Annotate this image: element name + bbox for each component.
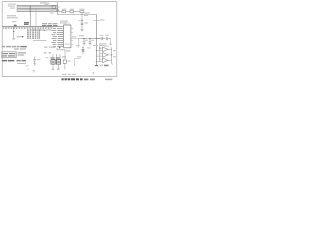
text above relay boxes bbox=[51, 57, 61, 58]
net text mid-left bbox=[17, 36, 23, 37]
capacitor C3 bbox=[81, 23, 84, 24]
resistor R1 bbox=[62, 11, 66, 13]
junction dots on bus bbox=[30, 6, 31, 12]
ic U4 box bbox=[56, 60, 60, 65]
wire IC to rail bbox=[75, 38, 79, 40]
ic U4 inner mark bbox=[57, 61, 59, 63]
junction decoupling rail 1 bbox=[83, 38, 84, 39]
connector J1 long pin row bbox=[2, 26, 57, 28]
wire U2B in1 bbox=[100, 53, 103, 55]
text near D1 bbox=[76, 45, 91, 57]
text right of op-amps bbox=[113, 50, 116, 57]
wire drop 2 bbox=[56, 54, 58, 60]
wire bus line D1 bbox=[17, 6, 58, 8]
junction R3 wire bbox=[81, 14, 82, 15]
wire IC bottom L bbox=[57, 48, 65, 60]
value text above R1 R2 bbox=[62, 9, 74, 10]
crystal Y1 bbox=[52, 6, 56, 9]
wire right vertical rail bbox=[95, 14, 97, 65]
wire below RN1 bbox=[33, 39, 47, 41]
ground marks bottom-left area bbox=[32, 70, 35, 73]
wire bus line D0 bbox=[17, 4, 58, 6]
wire U2A in1 bbox=[100, 47, 103, 49]
label text above bus right bbox=[40, 2, 50, 5]
capacitor C8 bbox=[107, 37, 111, 40]
IC U1 body bbox=[64, 25, 71, 48]
notes text top-left bbox=[8, 4, 16, 9]
IC U1 pin label rows bbox=[52, 26, 64, 47]
capacitor C5 bbox=[89, 39, 92, 46]
wire R3 down bbox=[81, 13, 83, 30]
wire vertical left column bbox=[13, 27, 15, 38]
wire stub left of node bbox=[79, 20, 83, 22]
wire below U4 bbox=[58, 64, 60, 69]
ground C9 bbox=[33, 64, 36, 66]
node IC bottom bbox=[59, 47, 61, 49]
wire U2B out bbox=[108, 54, 112, 56]
value text C3 bbox=[85, 22, 89, 23]
net label text dark above grid bbox=[24, 22, 29, 25]
notes line 4 bbox=[17, 63, 26, 64]
op-amp section header text bbox=[100, 43, 107, 46]
value text C9 bbox=[37, 57, 53, 60]
notes line 2 bbox=[14, 48, 26, 49]
op-amp rail 2 bbox=[99, 44, 101, 62]
node dot far-left bottom bbox=[28, 69, 29, 70]
wire drop 3 bbox=[59, 54, 61, 60]
wire C8 down bbox=[110, 39, 112, 44]
ground left column bbox=[12, 38, 15, 41]
op-amp U2C bbox=[103, 58, 108, 63]
ic U3 box bbox=[51, 60, 55, 65]
node RN1 wire bbox=[44, 30, 45, 31]
wire bus line D3 bbox=[17, 9, 58, 11]
ground bottom center bbox=[52, 68, 60, 71]
IC U1 designator text bbox=[65, 44, 70, 45]
wire stub at right rail bbox=[93, 20, 100, 22]
wire drop 1 bbox=[52, 54, 54, 60]
wire vertical drop 2 from bus bbox=[35, 8, 37, 26]
wire below U3 bbox=[52, 64, 54, 69]
ground at C3 bbox=[80, 30, 83, 32]
resistor R3 bbox=[80, 11, 84, 13]
IC U1 right pin text bbox=[72, 36, 76, 37]
op-amp U2A bbox=[103, 47, 108, 52]
ground C8 bbox=[109, 43, 112, 46]
wire U2C out bbox=[108, 59, 112, 61]
wire output bus vertical bbox=[111, 47, 113, 64]
resistor network RN1 label grid bbox=[27, 30, 39, 39]
wire below R7 bbox=[64, 63, 66, 69]
node at D1 top bbox=[82, 47, 83, 48]
capacitor C1 bbox=[56, 10, 59, 11]
wire U2C in1 bbox=[100, 58, 103, 60]
node on left column bbox=[13, 31, 14, 32]
node dark mid-left bbox=[22, 36, 24, 38]
wire bus line D2 bbox=[17, 7, 58, 9]
text right mid cluster bbox=[93, 45, 109, 47]
value text above R3 bbox=[80, 9, 85, 10]
node bus left end bbox=[16, 5, 18, 12]
text net label light bbox=[100, 65, 104, 66]
notes table box bbox=[2, 52, 16, 58]
junction crystal wire bbox=[57, 11, 58, 12]
wire to D1 area bbox=[75, 58, 81, 60]
capacitor C4 bbox=[83, 39, 86, 46]
junction decoupling rail 3 bbox=[96, 38, 97, 39]
notes line 1 bbox=[2, 46, 27, 47]
text IC bottom area bbox=[44, 47, 71, 58]
notes table row 1 bbox=[3, 53, 16, 54]
net label dark at connector bbox=[14, 25, 17, 27]
wire vertical drop from bus bbox=[29, 5, 31, 26]
junction decoupling rail 2 bbox=[89, 38, 90, 39]
IC U1 top pin ticks bbox=[65, 22, 69, 25]
wire U2A in2 bbox=[96, 50, 102, 52]
wire hook at output bus bbox=[111, 64, 114, 65]
title text dark bbox=[62, 78, 113, 80]
wire vertical at crystal bbox=[56, 2, 58, 14]
wire long to right edge bbox=[57, 13, 96, 15]
node output bus bbox=[111, 54, 112, 55]
capacitor C9 polarized bbox=[33, 57, 36, 64]
net label text left margin bbox=[7, 15, 18, 22]
node R3/C3 bbox=[81, 20, 82, 21]
wire U2B in2 bbox=[96, 55, 102, 57]
diode D1 cluster bbox=[82, 48, 85, 55]
notes right of table bbox=[18, 52, 27, 55]
small mark above title right bbox=[93, 72, 94, 74]
wire to R1 bbox=[57, 10, 80, 12]
notes line 3 dark bbox=[2, 60, 26, 62]
value text near crystal bbox=[50, 11, 55, 14]
wire RN1 right edge bbox=[39, 29, 41, 39]
wire rail end dash bbox=[95, 65, 98, 66]
resistor R2 bbox=[70, 11, 74, 13]
wire RN1 to IC bbox=[40, 29, 47, 31]
pin number text above connector bbox=[42, 23, 57, 26]
wire right vertical x74.8 bbox=[74, 58, 76, 66]
wire vertical x78.5 bbox=[78, 39, 80, 48]
capacitor C7 bbox=[96, 37, 105, 40]
connector J1 pin tick row bbox=[3, 27, 52, 29]
text above IC U1 bbox=[60, 21, 68, 24]
resistor R7 box bbox=[63, 60, 66, 63]
wire bus line D4 bbox=[17, 10, 58, 12]
pin name text row 2 under connector bbox=[31, 29, 52, 30]
net label VCC above rail bbox=[79, 35, 84, 36]
wire U2A out bbox=[108, 48, 112, 50]
IC U1 right pin stubs bbox=[71, 29, 75, 45]
text right of R7 bbox=[67, 61, 71, 62]
junction rail dots bbox=[96, 48, 101, 63]
op-amp U2B bbox=[103, 53, 108, 58]
net text right rail bbox=[100, 19, 105, 20]
notes table row 2 bbox=[3, 55, 16, 56]
wire U2C in2 bbox=[96, 61, 102, 63]
text GND label dark bbox=[104, 65, 109, 67]
wire decoupling rail bbox=[79, 38, 101, 40]
wire crystal to node bbox=[56, 6, 60, 8]
value text C4 C5 bbox=[85, 39, 94, 42]
small mark left bbox=[26, 65, 29, 66]
value text C7 C8 bbox=[100, 34, 110, 37]
border frame bbox=[2, 2, 117, 77]
ic U3 inner mark bbox=[52, 61, 54, 63]
net label on long wire bbox=[84, 12, 90, 15]
text above title line bbox=[62, 74, 76, 75]
